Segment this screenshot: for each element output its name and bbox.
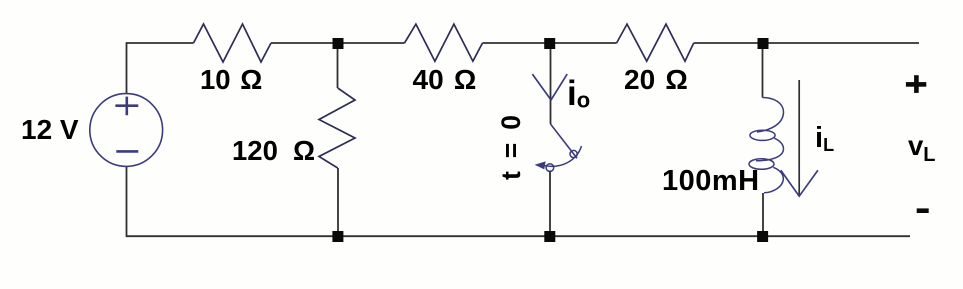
wire inductor bottom stub [762, 193, 764, 236]
wire switch bottom stub [549, 171, 551, 236]
resistor R1 10 ohm [194, 24, 272, 62]
label 100mH [662, 165, 760, 198]
inductor L1 coil arc 2 [756, 138, 784, 161]
node D bottom junction R4 [332, 231, 343, 242]
switch open contact circle [570, 150, 577, 157]
node A top junction R1-R4 [333, 38, 344, 49]
label 20 ohm [624, 64, 688, 96]
wire 120ohm top stub [337, 43, 339, 88]
voltage source plus sign [115, 97, 138, 116]
switch bottom contact circle [546, 164, 554, 172]
wire top rail between R1 and R2 [271, 42, 405, 44]
wire top rail between R2 and R3 [483, 42, 617, 44]
wire inductor top stub [762, 43, 764, 98]
voltage source minus sign [116, 150, 138, 153]
inductor L1 coil arc 3 [764, 167, 783, 193]
label iL [815, 122, 834, 156]
wire 120ohm bottom stub [337, 168, 339, 236]
wire switch top stub [550, 43, 552, 124]
terminal plus sign vL [906, 82, 926, 87]
current arrow iL head [781, 170, 818, 196]
wire top rail left segment [127, 43, 194, 94]
current arrow io [532, 74, 567, 100]
label t = 0 [496, 112, 527, 180]
wire bottom rail [127, 167, 911, 237]
wire top rail right segment [694, 42, 919, 44]
resistor R2 40 ohm [405, 24, 483, 61]
current arrow iL shaft [798, 80, 800, 196]
terminal minus sign vL [917, 208, 929, 213]
inductor L1 coil loop 2 [749, 159, 774, 170]
node B top junction switch [544, 38, 555, 49]
label 10 ohm [200, 64, 262, 96]
node C top junction inductor [758, 38, 769, 49]
node F bottom junction inductor [757, 231, 768, 242]
inductor L1 coil arc 1 [757, 98, 784, 133]
label 40 ohm [413, 64, 477, 96]
switch motion arrowhead [536, 162, 545, 169]
switch motion arc [543, 146, 582, 166]
label vL [908, 130, 936, 167]
switch blade [551, 124, 578, 158]
label 120 ohm [232, 135, 315, 167]
label 12 V [21, 114, 79, 146]
resistor R3 20 ohm [617, 24, 694, 61]
label io [567, 74, 590, 114]
inductor L1 coil loop 1 [750, 130, 775, 140]
node E bottom junction switch [544, 231, 555, 242]
resistor R4 120 ohm vertical [319, 88, 355, 168]
voltage source V1 12V circle [90, 94, 163, 167]
